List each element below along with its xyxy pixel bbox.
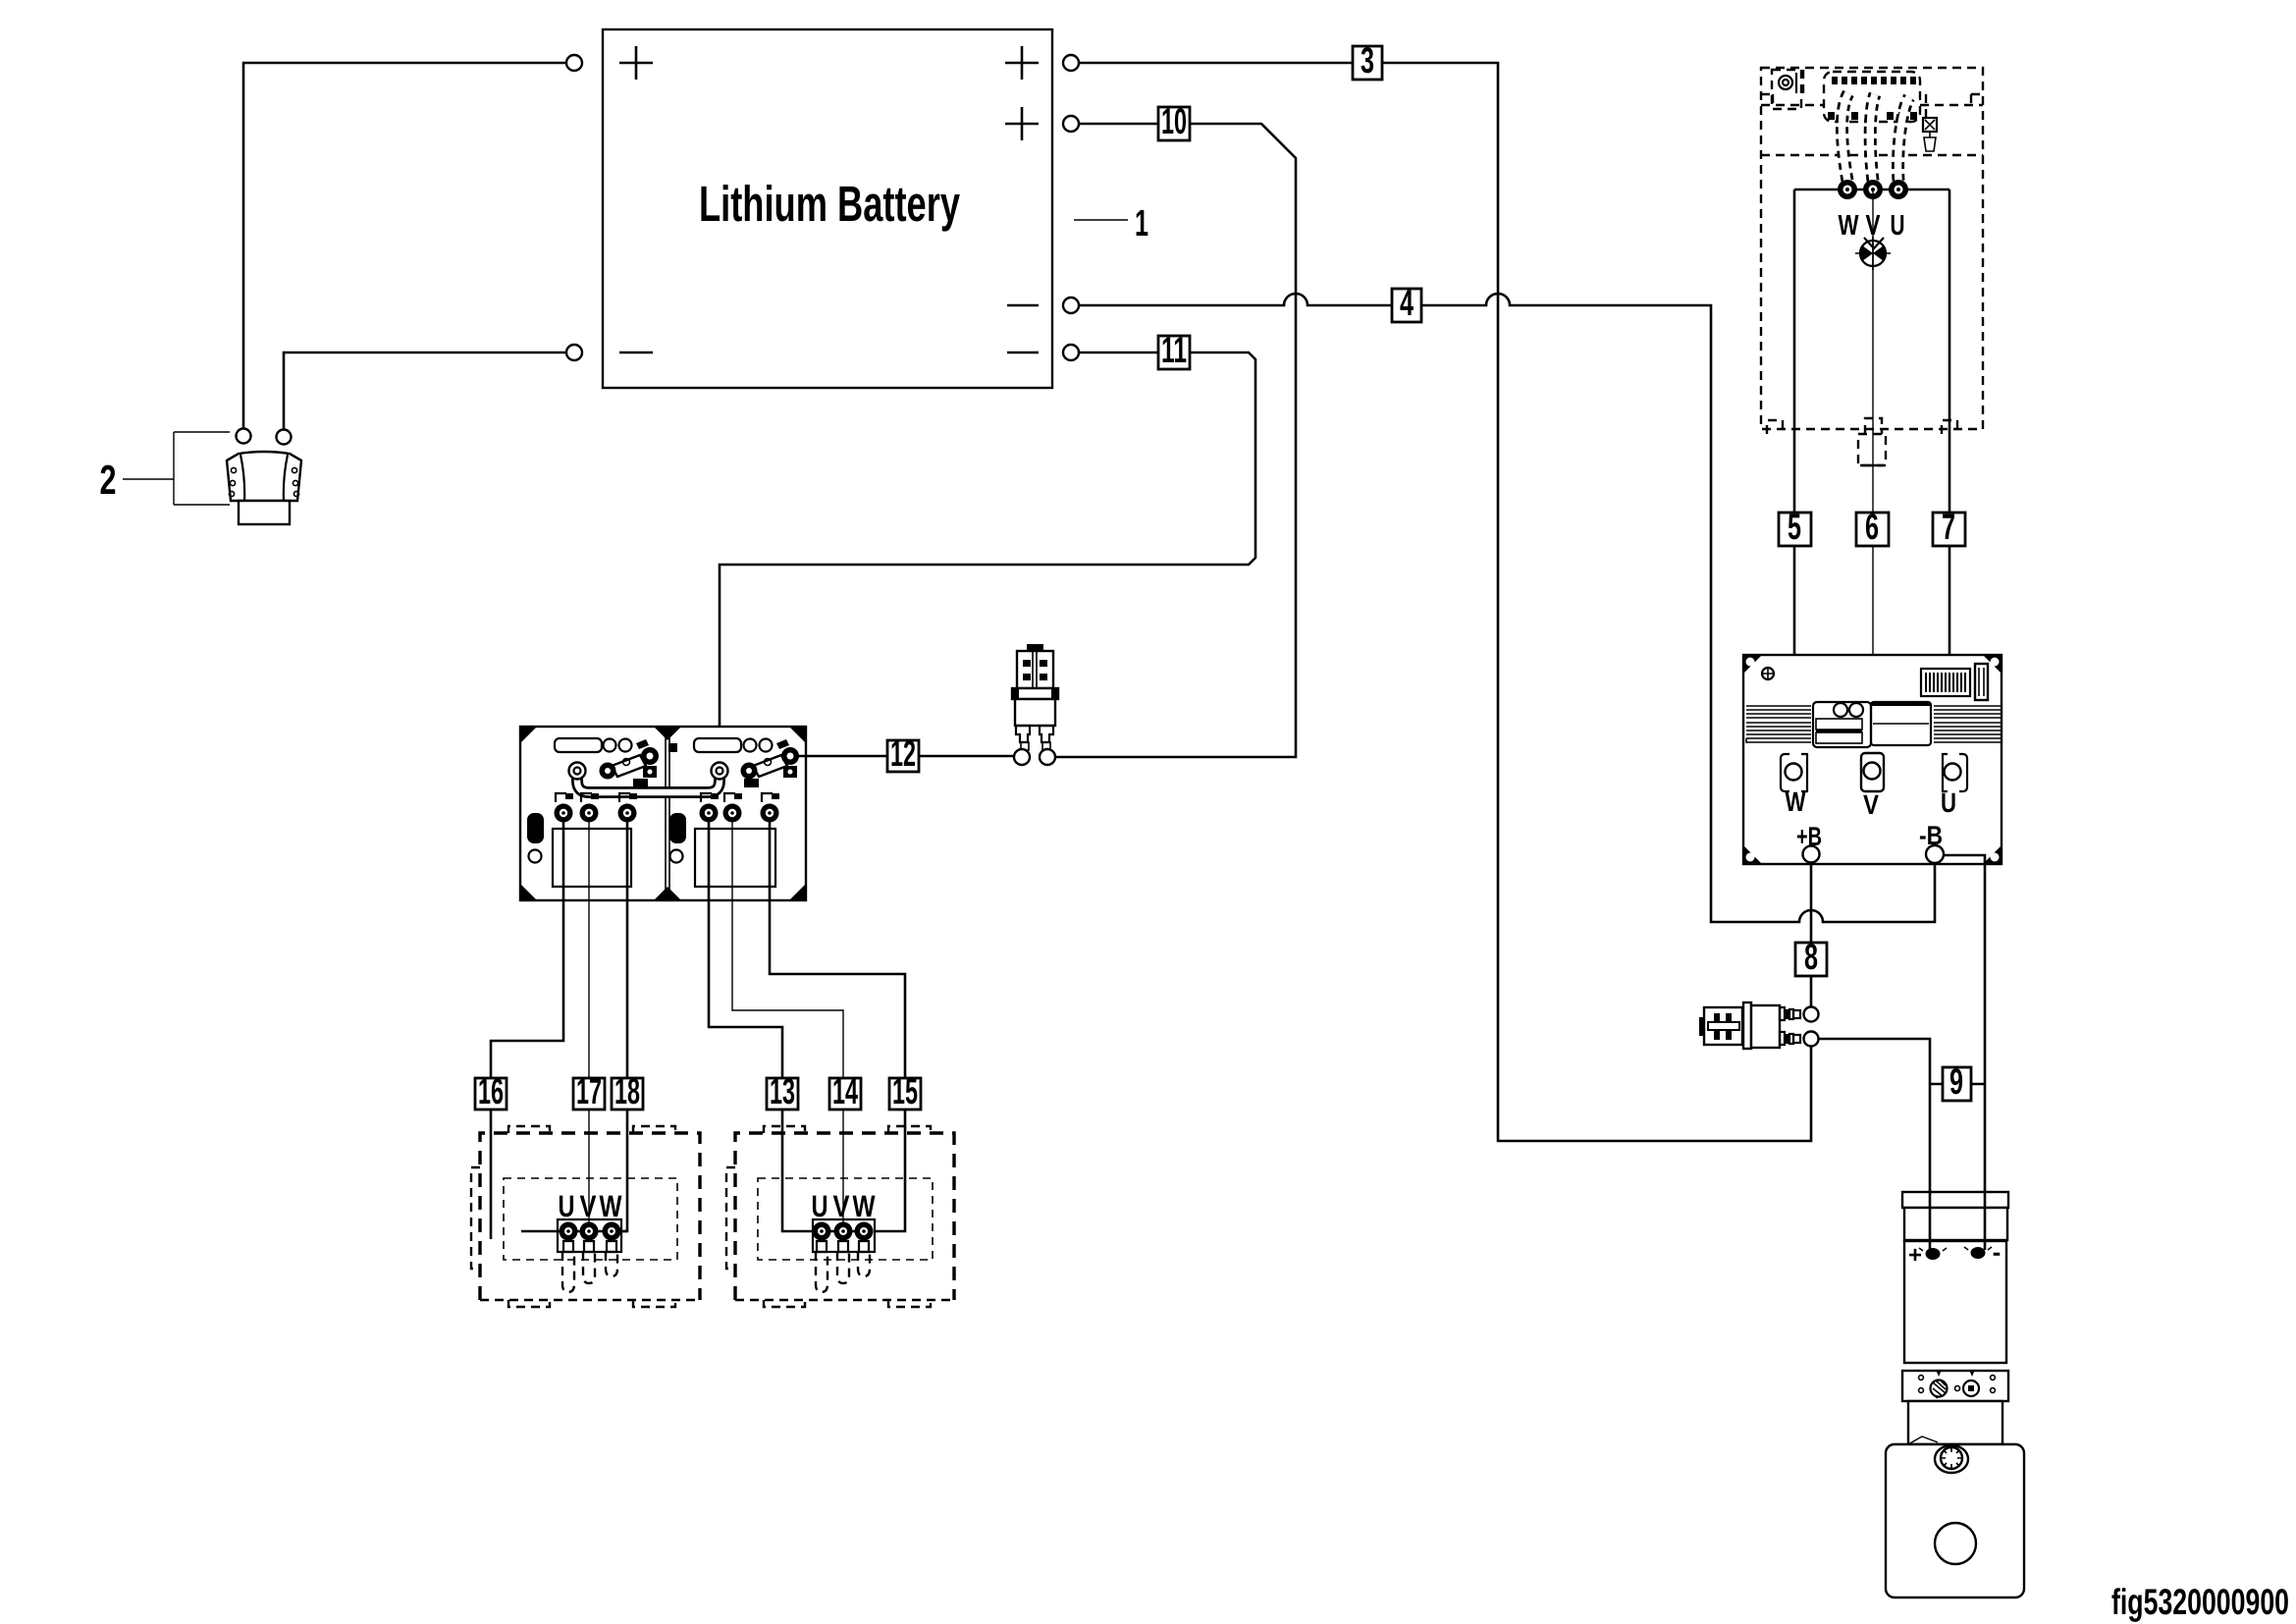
svg-text:W: W — [1786, 786, 1806, 817]
label 11 — [1158, 330, 1190, 370]
svg-text:W: W — [853, 1189, 877, 1223]
center capacitor panel — [1813, 702, 1871, 747]
wire 13 — [709, 821, 812, 1231]
wire 15 — [770, 821, 905, 1231]
left module lower block — [553, 829, 631, 887]
pump flange — [1902, 1371, 2008, 1401]
-B terminal — [1926, 845, 1944, 863]
label 14 — [829, 1071, 861, 1111]
svg-text:6: 6 — [1865, 507, 1879, 547]
contactor terminal top — [1804, 1007, 1819, 1022]
pump + terminal — [1926, 1248, 1941, 1260]
battery terminal left - — [566, 345, 582, 360]
label 18 — [612, 1071, 643, 1111]
svg-text:9: 9 — [1949, 1061, 1963, 1102]
wire 12: controller to contactor K1 — [798, 755, 1015, 758]
svg-text:7: 7 — [1942, 507, 1955, 547]
small screw — [1762, 668, 1774, 679]
heatsink fins right — [1934, 706, 2001, 742]
svg-text:3: 3 — [1361, 40, 1374, 81]
svg-text:10: 10 — [1161, 101, 1187, 141]
wire battery + to connector 2 — [243, 63, 566, 428]
traction motor M1 (left, dashed) — [471, 1126, 700, 1307]
left module busbar — [612, 755, 646, 777]
motor M1 terminal V — [580, 1222, 599, 1241]
svg-text:13: 13 — [770, 1071, 795, 1111]
label 7 — [1933, 507, 1965, 547]
battery terminal right -2 — [1063, 345, 1079, 360]
motor terminal U — [1889, 180, 1908, 199]
divider — [666, 727, 669, 900]
pump - terminal — [1971, 1247, 1986, 1259]
right module lower block — [695, 829, 775, 887]
terminal pad U — [1943, 754, 1967, 791]
battery left plus symbol — [619, 46, 653, 80]
contactor K1 terminal right — [1040, 749, 1055, 765]
label 10 — [1158, 101, 1190, 141]
left module side grommet — [527, 813, 544, 843]
right module busbar — [753, 755, 787, 777]
svg-text:V: V — [833, 1189, 850, 1223]
wire into pump - terminal — [1984, 1190, 1987, 1250]
svg-text:12: 12 — [890, 733, 916, 774]
motor terminal bus — [1794, 189, 1949, 191]
motor M1 terminal W — [603, 1222, 621, 1241]
svg-text:16: 16 — [478, 1071, 504, 1111]
motor M2 terminal pins — [817, 1241, 869, 1252]
svg-text:W: W — [1839, 210, 1859, 242]
motor foot dashed blocks — [1767, 418, 1957, 434]
svg-text:U: U — [1941, 787, 1956, 818]
battery terminal right +2 — [1063, 116, 1079, 132]
label 15 — [889, 1071, 921, 1111]
corner hatch marks — [520, 727, 806, 900]
wire 18 — [621, 821, 627, 1231]
callout line item 1 — [1074, 219, 1128, 221]
heatsink fins left — [1746, 706, 1811, 742]
motor M1 terminal U — [560, 1222, 578, 1241]
right module main terminal — [712, 763, 728, 780]
left module phase terminals — [555, 793, 638, 823]
lithium battery box (item 1) — [603, 29, 1052, 388]
motor phase cable W (tube) — [1842, 93, 1848, 181]
svg-text:15: 15 — [892, 1071, 918, 1111]
motor right-side small fitting — [1923, 118, 1937, 132]
svg-text:5: 5 — [1788, 507, 1801, 547]
pump motor body — [1904, 1241, 2006, 1363]
motor phase cable V (tube) — [1870, 94, 1875, 181]
connector pin terminal B — [277, 430, 292, 445]
svg-text:fig5320000900: fig5320000900 — [2111, 1582, 2289, 1622]
svg-text:U: U — [812, 1189, 828, 1223]
wire -B to pump - — [1944, 855, 1985, 1250]
svg-text:V: V — [580, 1189, 597, 1223]
motor M2 terminal block — [813, 1219, 875, 1252]
wire 14 — [732, 821, 843, 1222]
pump motor controller U2 — [1743, 655, 2002, 864]
corner screws — [1743, 655, 2002, 864]
motor M2 terminal V — [834, 1222, 853, 1241]
wire 17 — [588, 821, 590, 1222]
battery left minus symbol — [619, 352, 653, 354]
battery right minus symbol 2 — [1007, 352, 1039, 354]
motor top terminal cover (dashed) — [1824, 72, 1920, 122]
svg-text:1: 1 — [1135, 203, 1148, 244]
svg-text:-: - — [1993, 1237, 2002, 1267]
wire contactor to pump + — [1818, 1039, 1930, 1251]
lifting-eye symbol — [1855, 237, 1891, 270]
arrow below V — [1864, 238, 1884, 248]
svg-text:Lithium Battery: Lithium Battery — [699, 176, 960, 232]
wire 11: battery -2 to traction controller — [720, 352, 1255, 762]
tank filler cap — [1935, 1445, 1968, 1473]
wire battery - to connector 2 — [284, 352, 566, 429]
motor M1 terminal row — [521, 1230, 627, 1233]
label 3 — [1353, 40, 1382, 81]
right module phase terminals — [700, 793, 780, 823]
motor terminal W — [1838, 180, 1857, 199]
label 16 — [475, 1071, 507, 1111]
label 9 links — [1930, 1083, 1985, 1086]
label 5 — [1779, 507, 1811, 547]
motor M2 terminal U — [813, 1222, 831, 1241]
label 8 — [1795, 937, 1827, 977]
label 17 — [573, 1071, 605, 1111]
motor M2 terminal row — [822, 1230, 864, 1233]
motor M1 terminal block — [558, 1219, 621, 1252]
traction contactor K1 — [1012, 644, 1058, 765]
svg-text:V: V — [1863, 789, 1879, 820]
svg-text:11: 11 — [1161, 330, 1187, 370]
wire 4: battery -1 to controller -B — [1079, 294, 1935, 922]
wire 10: battery +2 down to contactor 12 — [1055, 124, 1296, 757]
link busbar tube — [577, 772, 720, 792]
wire into pump + terminal — [1929, 1190, 1932, 1251]
left module top vent — [555, 738, 602, 752]
battery terminal right -1 — [1063, 298, 1079, 313]
hydraulic pump unit (item 9 target) — [1886, 1192, 2024, 1597]
motor shaft stub — [1858, 434, 1886, 465]
svg-text:U: U — [1891, 210, 1905, 242]
left module main terminal — [569, 763, 586, 780]
motor top-left bracket with screw — [1772, 70, 1801, 109]
battery right minus symbol 1 — [1007, 304, 1039, 307]
contactor terminal bottom — [1804, 1032, 1819, 1047]
motor phase cable U (tube) — [1898, 97, 1909, 181]
hydraulic tank — [1886, 1444, 2024, 1597]
terminal pad V — [1861, 753, 1884, 791]
right module side grommet — [669, 813, 686, 843]
battery right plus symbol 1 — [1005, 46, 1039, 80]
battery terminal right +1 — [1063, 55, 1079, 71]
label 13 — [767, 1071, 798, 1111]
wire 5 (motor W to controller W) — [1793, 189, 1796, 764]
connector pin terminal A — [237, 429, 251, 444]
contactor K1 terminal left — [1014, 749, 1030, 765]
pump contactor K2 — [1699, 1002, 1819, 1049]
label 4 — [1392, 283, 1421, 323]
motor M2 terminal W — [855, 1222, 874, 1241]
connector 2 body — [227, 452, 301, 524]
wire 8: +B to contactor — [1810, 862, 1813, 1006]
motor M1 terminal pins — [563, 1241, 616, 1252]
svg-text:8: 8 — [1804, 937, 1818, 977]
label 12 — [887, 733, 919, 774]
wire 16 — [491, 821, 563, 1239]
label 6 — [1856, 507, 1889, 547]
svg-text:14: 14 — [832, 1071, 858, 1111]
tank port circle — [1935, 1523, 1976, 1564]
svg-text:17: 17 — [576, 1071, 602, 1111]
svg-text:2: 2 — [100, 457, 117, 503]
pump drive motor M3 (dashed outline, top right) — [1761, 68, 1983, 465]
top-right signal connector — [1921, 669, 1970, 696]
svg-text:18: 18 — [614, 1071, 640, 1111]
svg-text:4: 4 — [1400, 283, 1414, 323]
+B terminal — [1803, 846, 1820, 863]
right module top vent — [694, 738, 741, 752]
pump neck — [1908, 1401, 2002, 1444]
dual traction controller U1 — [520, 727, 806, 900]
label 9 — [1943, 1061, 1971, 1102]
terminal pad W — [1781, 754, 1807, 791]
wire 3: battery + to contactor (pump circuit) — [1079, 63, 1811, 1141]
wire 6 (motor V to controller V) — [1872, 189, 1874, 765]
traction motor M2 (right, dashed) — [726, 1126, 954, 1307]
battery terminal left + — [566, 55, 582, 71]
svg-text:U: U — [559, 1189, 575, 1223]
pump motor cap — [1902, 1192, 2008, 1208]
battery right plus symbol 2 — [1005, 107, 1039, 140]
wire 7 (motor U to controller U) — [1949, 189, 1951, 765]
callout bracket item 2 — [123, 432, 230, 505]
motor terminal V — [1863, 180, 1883, 199]
svg-text:+: + — [1908, 1242, 1922, 1269]
svg-text:W: W — [600, 1189, 623, 1223]
